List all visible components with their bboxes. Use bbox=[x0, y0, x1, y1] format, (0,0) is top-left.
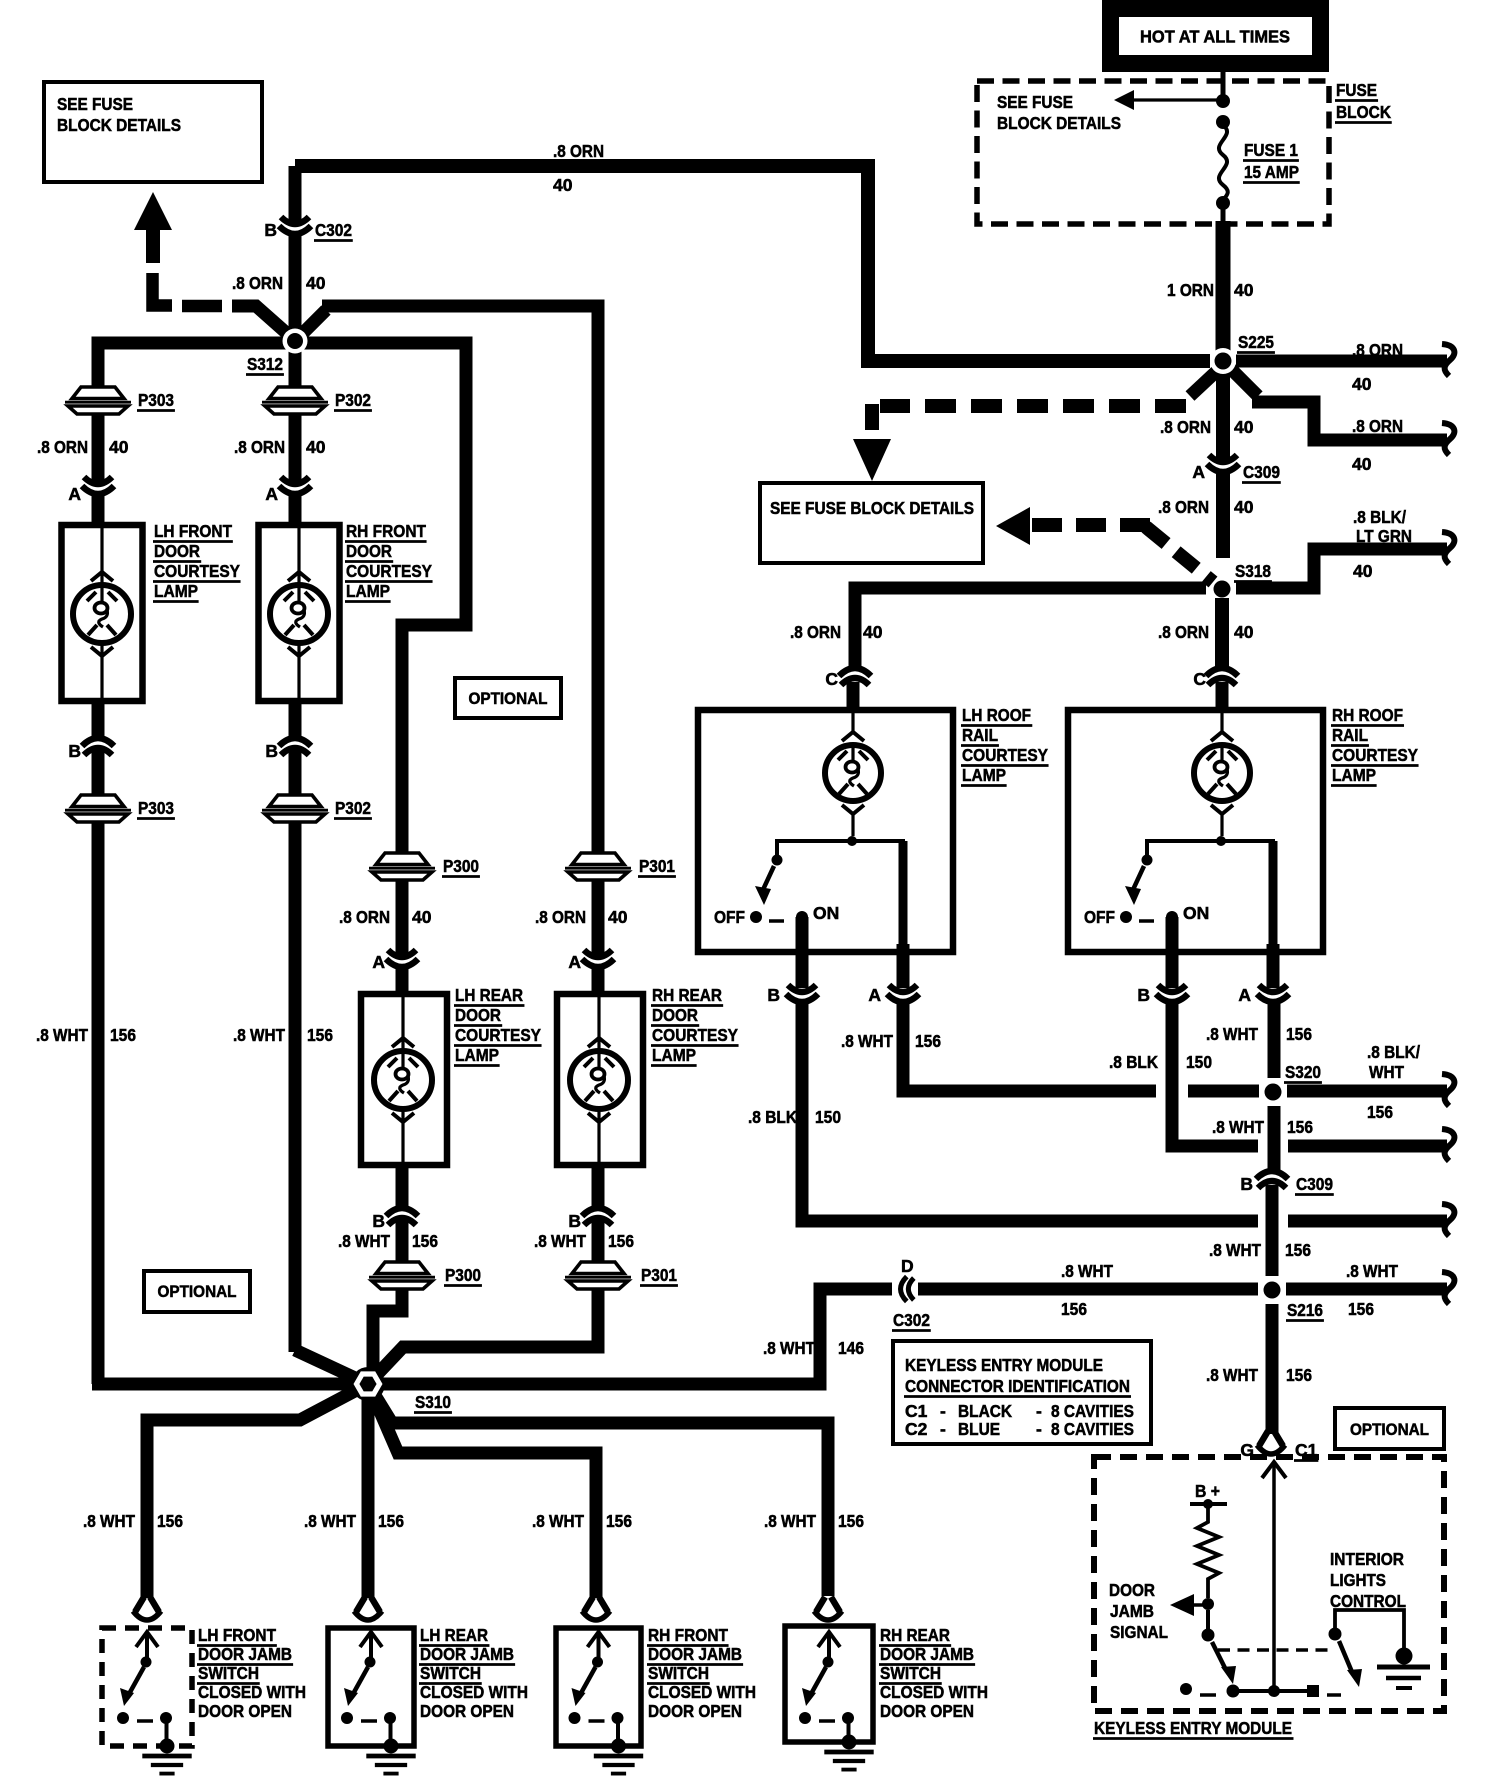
svg-text:.8 WHT: .8 WHT bbox=[1346, 1261, 1398, 1281]
svg-text:COURTESY: COURTESY bbox=[652, 1025, 738, 1045]
svg-text:40: 40 bbox=[608, 907, 628, 927]
svg-text:C302: C302 bbox=[315, 220, 352, 240]
svg-text:INTERIOR: INTERIOR bbox=[1330, 1549, 1404, 1569]
svg-text:C1: C1 bbox=[905, 1401, 928, 1421]
svg-text:SWITCH: SWITCH bbox=[420, 1663, 481, 1683]
svg-text:DOOR: DOOR bbox=[154, 541, 200, 561]
svg-text:156: 156 bbox=[1286, 1365, 1312, 1385]
svg-text:.8 BLK: .8 BLK bbox=[1109, 1052, 1158, 1072]
svg-text:S216: S216 bbox=[1287, 1300, 1323, 1320]
svg-text:COURTESY: COURTESY bbox=[962, 745, 1048, 765]
svg-text:P303: P303 bbox=[138, 798, 174, 818]
svg-text:156: 156 bbox=[608, 1231, 634, 1251]
svg-text:DOOR OPEN: DOOR OPEN bbox=[648, 1701, 742, 1721]
svg-text:40: 40 bbox=[1234, 497, 1254, 517]
svg-text:SWITCH: SWITCH bbox=[648, 1663, 709, 1683]
svg-text:.8 ORN: .8 ORN bbox=[339, 907, 390, 927]
svg-text:C: C bbox=[1193, 669, 1206, 689]
svg-text:.8 ORN: .8 ORN bbox=[553, 141, 604, 161]
svg-text:OFF: OFF bbox=[1084, 907, 1115, 927]
svg-text:.8 WHT: .8 WHT bbox=[36, 1025, 88, 1045]
svg-text:156: 156 bbox=[838, 1511, 864, 1531]
svg-text:DOOR: DOOR bbox=[1109, 1580, 1155, 1600]
svg-text:P301: P301 bbox=[641, 1265, 677, 1285]
svg-text:SEE FUSE: SEE FUSE bbox=[997, 92, 1073, 112]
svg-text:LH FRONT: LH FRONT bbox=[198, 1625, 276, 1645]
svg-text:150: 150 bbox=[815, 1107, 841, 1127]
svg-text:150: 150 bbox=[1186, 1052, 1212, 1072]
svg-text:LH ROOF: LH ROOF bbox=[962, 705, 1031, 725]
svg-text:BLOCK: BLOCK bbox=[1336, 102, 1391, 122]
svg-text:A: A bbox=[372, 952, 385, 972]
svg-text:156: 156 bbox=[378, 1511, 404, 1531]
svg-text:40: 40 bbox=[412, 907, 432, 927]
svg-text:.8 ORN: .8 ORN bbox=[1158, 497, 1209, 517]
svg-text:S225: S225 bbox=[1238, 332, 1274, 352]
svg-text:P303: P303 bbox=[138, 390, 174, 410]
svg-text:S310: S310 bbox=[415, 1392, 451, 1412]
svg-text:RH FRONT: RH FRONT bbox=[648, 1625, 728, 1645]
svg-text:OPTIONAL: OPTIONAL bbox=[158, 1282, 237, 1301]
svg-text:C302: C302 bbox=[893, 1310, 930, 1330]
svg-text:LAMP: LAMP bbox=[154, 581, 198, 601]
svg-text:.8 WHT: .8 WHT bbox=[1212, 1117, 1264, 1137]
svg-text:A: A bbox=[68, 484, 81, 504]
svg-text:SEE FUSE BLOCK DETAILS: SEE FUSE BLOCK DETAILS bbox=[770, 498, 974, 518]
svg-text:-: - bbox=[1036, 1419, 1042, 1439]
svg-text:8 CAVITIES: 8 CAVITIES bbox=[1051, 1419, 1134, 1439]
svg-text:BLACK: BLACK bbox=[958, 1401, 1012, 1421]
svg-text:.8 WHT: .8 WHT bbox=[1209, 1240, 1261, 1260]
svg-text:.8 BLK: .8 BLK bbox=[748, 1107, 797, 1127]
svg-text:ON: ON bbox=[1183, 903, 1209, 923]
svg-text:.8 WHT: .8 WHT bbox=[763, 1338, 815, 1358]
svg-text:FUSE 1: FUSE 1 bbox=[1244, 140, 1298, 160]
svg-text:.8 ORN: .8 ORN bbox=[535, 907, 586, 927]
svg-text:RH FRONT: RH FRONT bbox=[346, 521, 426, 541]
svg-text:.8 ORN: .8 ORN bbox=[232, 273, 283, 293]
svg-text:CLOSED WITH: CLOSED WITH bbox=[648, 1682, 756, 1702]
svg-text:156: 156 bbox=[1367, 1102, 1393, 1122]
svg-text:40: 40 bbox=[306, 437, 326, 457]
svg-text:.8 ORN: .8 ORN bbox=[790, 622, 841, 642]
svg-text:LH REAR: LH REAR bbox=[420, 1625, 488, 1645]
svg-text:.8 ORN: .8 ORN bbox=[1158, 622, 1209, 642]
svg-text:COURTESY: COURTESY bbox=[346, 561, 432, 581]
svg-text:40: 40 bbox=[1352, 374, 1372, 394]
svg-text:40: 40 bbox=[1353, 561, 1373, 581]
svg-text:.8 WHT: .8 WHT bbox=[534, 1231, 586, 1251]
svg-text:.8 ORN: .8 ORN bbox=[37, 437, 88, 457]
svg-text:OPTIONAL: OPTIONAL bbox=[1350, 1420, 1429, 1439]
svg-text:15 AMP: 15 AMP bbox=[1244, 162, 1299, 182]
svg-text:P301: P301 bbox=[639, 856, 675, 876]
svg-text:BLOCK DETAILS: BLOCK DETAILS bbox=[997, 113, 1121, 133]
svg-text:DOOR JAMB: DOOR JAMB bbox=[648, 1644, 742, 1664]
svg-text:C309: C309 bbox=[1243, 462, 1280, 482]
svg-text:-: - bbox=[940, 1401, 946, 1421]
svg-text:CLOSED WITH: CLOSED WITH bbox=[198, 1682, 306, 1702]
svg-text:.8 ORN: .8 ORN bbox=[1352, 340, 1403, 360]
svg-text:DOOR JAMB: DOOR JAMB bbox=[420, 1644, 514, 1664]
svg-text:P302: P302 bbox=[335, 390, 371, 410]
svg-text:156: 156 bbox=[1061, 1299, 1087, 1319]
svg-text:40: 40 bbox=[306, 273, 326, 293]
svg-text:COURTESY: COURTESY bbox=[455, 1025, 541, 1045]
svg-text:1 ORN: 1 ORN bbox=[1167, 280, 1214, 300]
svg-text:156: 156 bbox=[307, 1025, 333, 1045]
svg-text:DOOR: DOOR bbox=[455, 1005, 501, 1025]
svg-text:DOOR JAMB: DOOR JAMB bbox=[198, 1644, 292, 1664]
svg-text:.8 WHT: .8 WHT bbox=[338, 1231, 390, 1251]
svg-text:LAMP: LAMP bbox=[652, 1045, 696, 1065]
svg-text:156: 156 bbox=[1348, 1299, 1374, 1319]
svg-text:CONTROL: CONTROL bbox=[1330, 1591, 1406, 1611]
svg-text:B: B bbox=[68, 741, 81, 761]
svg-text:RH REAR: RH REAR bbox=[880, 1625, 950, 1645]
svg-text:DOOR OPEN: DOOR OPEN bbox=[880, 1701, 974, 1721]
svg-text:DOOR OPEN: DOOR OPEN bbox=[420, 1701, 514, 1721]
svg-text:LAMP: LAMP bbox=[455, 1045, 499, 1065]
svg-text:156: 156 bbox=[1287, 1117, 1313, 1137]
svg-text:156: 156 bbox=[412, 1231, 438, 1251]
svg-text:.8 ORN: .8 ORN bbox=[1160, 417, 1211, 437]
svg-text:156: 156 bbox=[1285, 1240, 1311, 1260]
svg-text:.8 BLK/: .8 BLK/ bbox=[1367, 1042, 1420, 1062]
svg-text:C2: C2 bbox=[905, 1419, 928, 1439]
svg-text:156: 156 bbox=[110, 1025, 136, 1045]
svg-text:B +: B + bbox=[1195, 1481, 1220, 1501]
svg-text:.8 WHT: .8 WHT bbox=[1061, 1261, 1113, 1281]
svg-text:RAIL: RAIL bbox=[962, 725, 998, 745]
svg-text:DOOR JAMB: DOOR JAMB bbox=[880, 1644, 974, 1664]
svg-text:A: A bbox=[1238, 985, 1251, 1005]
svg-text:D: D bbox=[901, 1256, 914, 1276]
svg-text:KEYLESS ENTRY MODULE: KEYLESS ENTRY MODULE bbox=[1094, 1718, 1292, 1738]
svg-text:40: 40 bbox=[1234, 280, 1254, 300]
svg-text:B: B bbox=[1240, 1174, 1253, 1194]
svg-text:.8 WHT: .8 WHT bbox=[841, 1031, 893, 1051]
svg-text:ON: ON bbox=[813, 903, 839, 923]
svg-text:C: C bbox=[825, 669, 838, 689]
svg-text:BLOCK DETAILS: BLOCK DETAILS bbox=[57, 115, 181, 135]
svg-text:40: 40 bbox=[863, 622, 883, 642]
svg-text:.8 WHT: .8 WHT bbox=[1206, 1024, 1258, 1044]
svg-text:.8 ORN: .8 ORN bbox=[1352, 416, 1403, 436]
svg-text:156: 156 bbox=[606, 1511, 632, 1531]
svg-text:156: 156 bbox=[157, 1511, 183, 1531]
svg-text:RH ROOF: RH ROOF bbox=[1332, 705, 1403, 725]
svg-text:8 CAVITIES: 8 CAVITIES bbox=[1051, 1401, 1134, 1421]
svg-text:SEE FUSE: SEE FUSE bbox=[57, 94, 133, 114]
svg-text:B: B bbox=[1137, 985, 1150, 1005]
svg-text:BLUE: BLUE bbox=[958, 1419, 1000, 1439]
svg-text:S320: S320 bbox=[1285, 1062, 1321, 1082]
svg-text:LH REAR: LH REAR bbox=[455, 985, 523, 1005]
svg-text:.8 WHT: .8 WHT bbox=[233, 1025, 285, 1045]
svg-text:156: 156 bbox=[1286, 1024, 1312, 1044]
svg-text:SWITCH: SWITCH bbox=[880, 1663, 941, 1683]
svg-text:.8 BLK/: .8 BLK/ bbox=[1353, 507, 1406, 527]
svg-text:.8 WHT: .8 WHT bbox=[532, 1511, 584, 1531]
svg-text:JAMB: JAMB bbox=[1110, 1601, 1154, 1621]
svg-text:.8 WHT: .8 WHT bbox=[764, 1511, 816, 1531]
svg-text:S312: S312 bbox=[247, 354, 283, 374]
svg-text:SWITCH: SWITCH bbox=[198, 1663, 259, 1683]
svg-text:P302: P302 bbox=[335, 798, 371, 818]
svg-text:A: A bbox=[1192, 462, 1205, 482]
svg-text:LAMP: LAMP bbox=[346, 581, 390, 601]
svg-text:.8 WHT: .8 WHT bbox=[1206, 1365, 1258, 1385]
svg-text:DOOR: DOOR bbox=[346, 541, 392, 561]
svg-text:P300: P300 bbox=[445, 1265, 481, 1285]
svg-text:HOT AT ALL TIMES: HOT AT ALL TIMES bbox=[1140, 27, 1290, 47]
svg-text:.8 WHT: .8 WHT bbox=[304, 1511, 356, 1531]
svg-text:P300: P300 bbox=[443, 856, 479, 876]
svg-text:C309: C309 bbox=[1296, 1174, 1333, 1194]
svg-text:B: B bbox=[372, 1211, 385, 1231]
svg-text:40: 40 bbox=[109, 437, 129, 457]
svg-text:.8 ORN: .8 ORN bbox=[234, 437, 285, 457]
svg-text:146: 146 bbox=[838, 1338, 864, 1358]
svg-text:.8 WHT: .8 WHT bbox=[83, 1511, 135, 1531]
svg-text:A: A bbox=[868, 985, 881, 1005]
svg-text:B: B bbox=[265, 741, 278, 761]
svg-text:CONNECTOR IDENTIFICATION: CONNECTOR IDENTIFICATION bbox=[905, 1376, 1130, 1396]
svg-text:LT GRN: LT GRN bbox=[1356, 526, 1412, 546]
svg-text:B: B bbox=[568, 1211, 581, 1231]
svg-text:LH FRONT: LH FRONT bbox=[154, 521, 232, 541]
svg-text:OPTIONAL: OPTIONAL bbox=[469, 689, 548, 708]
svg-text:KEYLESS ENTRY MODULE: KEYLESS ENTRY MODULE bbox=[905, 1355, 1103, 1375]
svg-text:LAMP: LAMP bbox=[1332, 765, 1376, 785]
svg-text:40: 40 bbox=[1352, 454, 1372, 474]
svg-text:B: B bbox=[767, 985, 780, 1005]
svg-text:LIGHTS: LIGHTS bbox=[1330, 1570, 1386, 1590]
svg-text:40: 40 bbox=[1234, 417, 1254, 437]
svg-text:DOOR OPEN: DOOR OPEN bbox=[198, 1701, 292, 1721]
svg-text:S318: S318 bbox=[1235, 561, 1271, 581]
svg-text:FUSE: FUSE bbox=[1336, 80, 1377, 100]
svg-text:DOOR: DOOR bbox=[652, 1005, 698, 1025]
svg-text:RAIL: RAIL bbox=[1332, 725, 1368, 745]
svg-text:CLOSED WITH: CLOSED WITH bbox=[420, 1682, 528, 1702]
svg-text:COURTESY: COURTESY bbox=[1332, 745, 1418, 765]
svg-text:40: 40 bbox=[1234, 622, 1254, 642]
svg-text:40: 40 bbox=[553, 175, 573, 195]
svg-text:LAMP: LAMP bbox=[962, 765, 1006, 785]
svg-text:OFF: OFF bbox=[714, 907, 745, 927]
svg-text:CLOSED WITH: CLOSED WITH bbox=[880, 1682, 988, 1702]
svg-text:-: - bbox=[940, 1419, 946, 1439]
svg-text:WHT: WHT bbox=[1369, 1062, 1404, 1082]
svg-text:SIGNAL: SIGNAL bbox=[1110, 1622, 1168, 1642]
svg-text:156: 156 bbox=[915, 1031, 941, 1051]
svg-text:-: - bbox=[1036, 1401, 1042, 1421]
svg-text:A: A bbox=[568, 952, 581, 972]
svg-text:COURTESY: COURTESY bbox=[154, 561, 240, 581]
svg-text:A: A bbox=[265, 484, 278, 504]
svg-text:RH REAR: RH REAR bbox=[652, 985, 722, 1005]
svg-text:B: B bbox=[264, 220, 277, 240]
